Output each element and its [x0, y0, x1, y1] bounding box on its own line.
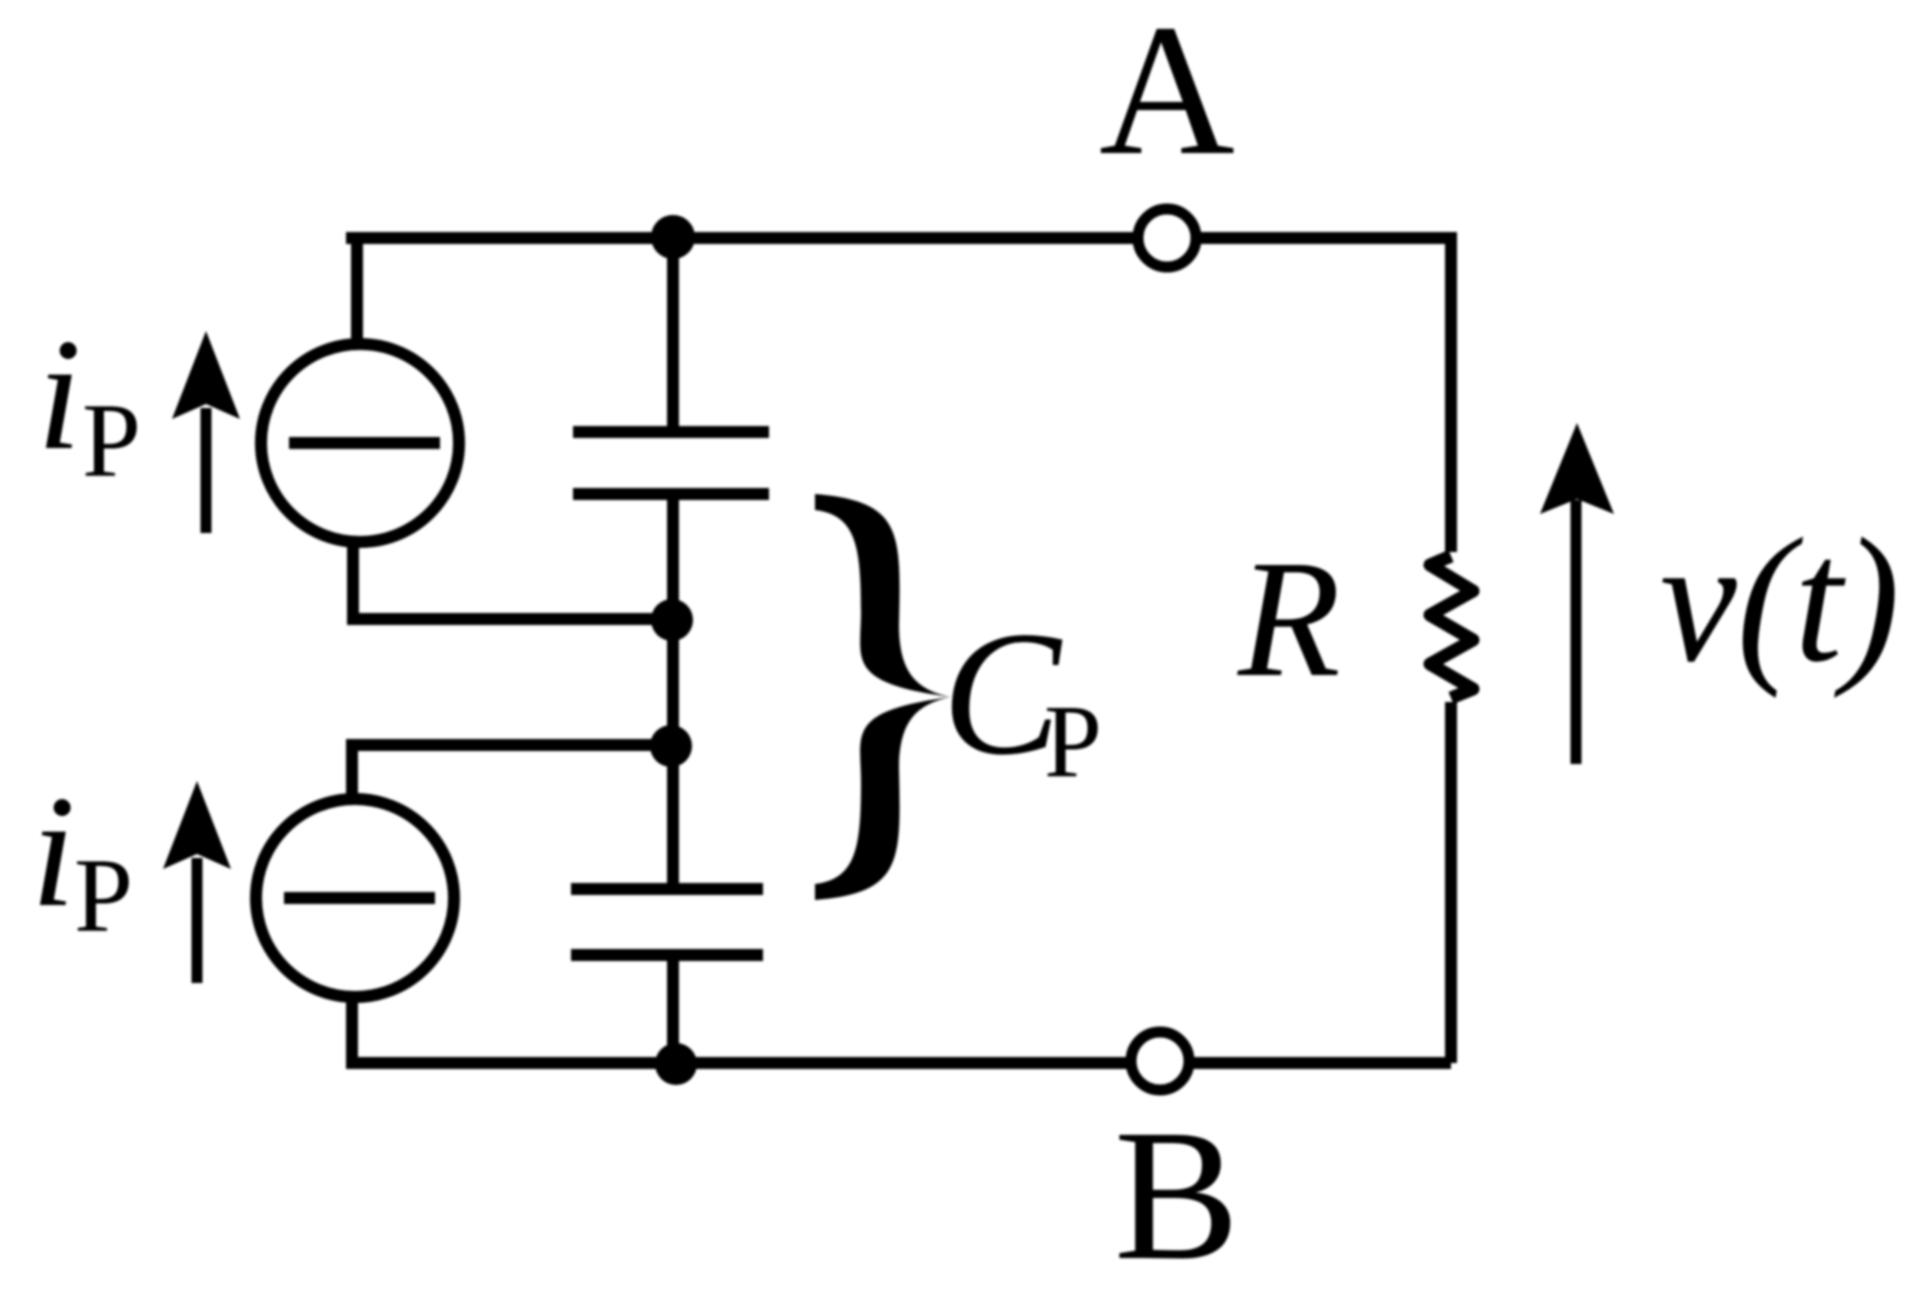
capacitor C1 bottom plate — [573, 488, 769, 500]
svg-text:i: i — [31, 762, 75, 940]
wire middle column: capacitor 2 to bottom wire — [667, 955, 679, 1063]
wire middle column: capacitor 1 to capacitor 2 — [667, 494, 679, 889]
svg-text:v(t): v(t) — [1660, 502, 1900, 699]
svg-text:R: R — [1237, 526, 1341, 712]
arrow i_P top: head — [172, 331, 240, 419]
brace C_P — [815, 494, 951, 900]
svg-text:B: B — [1114, 1090, 1239, 1297]
svg-text:P: P — [82, 382, 141, 499]
capacitor C2 top plate — [571, 883, 763, 895]
wire stub from top wire down to current source 1 — [351, 238, 363, 348]
wire from current source 1 bottom to middle node — [353, 540, 672, 619]
svg-text:P: P — [74, 837, 133, 954]
arrow i_P top: shaft — [201, 408, 212, 533]
wire middle column: top wire to capacitor 1 — [667, 238, 679, 432]
wire from current source 2 top to middle node — [352, 745, 671, 802]
wire right side (resistor to bottom corner) — [1445, 702, 1457, 1063]
arrow i_P bottom: head — [163, 781, 231, 869]
arrow v(t): shaft — [1571, 500, 1582, 764]
capacitor C2 bottom plate — [571, 949, 763, 961]
svg-text:P: P — [1044, 684, 1102, 799]
arrow i_P bottom: shaft — [192, 858, 203, 983]
current source 2 circle — [256, 799, 454, 997]
wire right side (top segment down to resistor) — [1445, 232, 1457, 552]
capacitor C1 top plate — [573, 426, 769, 438]
junction dot top — [651, 215, 695, 259]
terminal A circle — [1138, 209, 1196, 267]
current source 1 circle — [261, 344, 459, 542]
arrow v(t): head — [1540, 423, 1614, 514]
junction dot bottom — [655, 1043, 697, 1085]
wire top: from left corner to right corner — [352, 238, 1451, 244]
current source 1 bar — [289, 437, 440, 449]
junction dot node2 — [650, 725, 692, 767]
wire bottom: right corner to left corner — [352, 993, 1451, 1063]
svg-text:i: i — [37, 305, 81, 483]
resistor R zigzag — [1430, 556, 1473, 698]
svg-text:A: A — [1099, 0, 1235, 194]
terminal B circle — [1131, 1032, 1189, 1090]
current source 2 bar — [284, 892, 435, 904]
junction dot node1 — [651, 599, 693, 641]
